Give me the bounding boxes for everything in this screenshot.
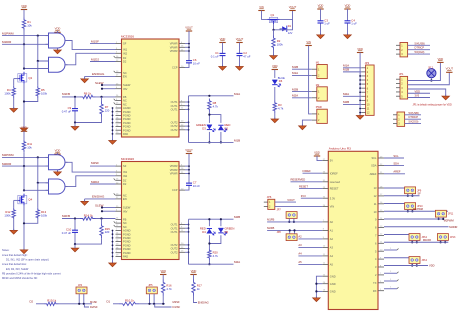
svg-text:OUT1: OUT1 xyxy=(171,223,178,227)
svg-text:NC: NC xyxy=(123,99,127,103)
svg-text:JP4: JP4 xyxy=(78,284,83,287)
junction OUT1 xyxy=(188,109,190,111)
junction R13/Q4 xyxy=(23,222,25,224)
junction inverter node 2 xyxy=(23,189,25,191)
wire R4 to gnd xyxy=(13,98,15,109)
svg-text:D1/SF: D1/SF xyxy=(173,305,181,309)
led D5 GREEN (M2) xyxy=(218,228,223,232)
svg-text:R10 1k: R10 1k xyxy=(125,299,134,303)
wire M2DIR xyxy=(2,165,49,167)
svg-text:VPWR: VPWR xyxy=(170,164,178,168)
svg-text:10k: 10k xyxy=(27,24,32,28)
ground (gate U3A) xyxy=(57,49,59,51)
svg-text:A4: A4 xyxy=(298,252,302,256)
svg-text:OUT2: OUT2 xyxy=(171,124,178,128)
svg-text:M1PWM: M1PWM xyxy=(2,31,14,35)
svg-text:A2: A2 xyxy=(330,237,334,241)
svg-text:PGND: PGND xyxy=(123,251,131,255)
svg-text:220: 220 xyxy=(105,109,110,113)
wire RESET xyxy=(299,188,322,190)
wire D1 to R10 xyxy=(113,303,119,305)
jumper JP8 legs xyxy=(289,230,291,233)
jumper JP12 (D7/D6) xyxy=(409,234,420,241)
junction OUT1 xyxy=(188,101,190,103)
wire M2DIR drop to gate2b in2 xyxy=(24,166,49,190)
wire U2 OUT1 bus xyxy=(188,219,190,264)
svg-text:FB provides 0.24% of the H-bri: FB provides 0.24% of the H-bridge high-s… xyxy=(2,271,61,275)
wire INV stub xyxy=(102,88,116,90)
wire D7 xyxy=(384,234,409,236)
svg-text:12V: 12V xyxy=(288,31,293,35)
svg-text:M1PWM: M1PWM xyxy=(413,207,423,211)
op-amp U1 MC33926 (driver 1) xyxy=(122,39,180,137)
capacitor C9 0.47uF xyxy=(74,97,76,109)
wire led bottoms M2 xyxy=(209,235,221,243)
wire R11 to M2DIR net xyxy=(23,152,25,166)
power flag VDD (C4) xyxy=(344,8,350,10)
svg-text:VPWR: VPWR xyxy=(170,168,178,172)
wire M1FB to A0 xyxy=(267,221,322,223)
junction OUT1b xyxy=(188,224,190,226)
wire D1 nc xyxy=(384,280,397,282)
resistor R14 1k xyxy=(80,217,96,220)
junction JP2 xyxy=(430,79,432,81)
wire Q1 gate node xyxy=(274,19,293,29)
junction U2 gnd pin xyxy=(112,237,114,239)
junction R20 top xyxy=(208,242,210,244)
ground (EN/DIAG M1) xyxy=(84,77,86,79)
wire D10 (M1PWM) xyxy=(384,210,448,212)
svg-text:D3: D3 xyxy=(202,127,206,131)
wire EN gnd stub 2 xyxy=(84,199,86,202)
wire SLEW stub 2 xyxy=(102,207,116,209)
svg-text:M1B: M1B xyxy=(343,68,349,72)
svg-text:A3: A3 xyxy=(330,246,334,250)
svg-text:0.47 uF: 0.47 uF xyxy=(62,231,72,235)
svg-text:PGND: PGND xyxy=(123,117,131,121)
svg-text:JP1 is default setting jumper: JP1 is default setting jumper for VDD xyxy=(413,104,452,107)
svg-text:PGND: PGND xyxy=(123,236,131,240)
junction 12-pin xyxy=(359,87,361,89)
wire U2 VPWR stub xyxy=(185,165,189,167)
wire M1B to conn xyxy=(292,68,312,70)
resistor R19 1k xyxy=(44,302,59,305)
svg-text:VDD: VDD xyxy=(345,3,351,7)
wire D6 to R3 xyxy=(274,87,276,101)
svg-text:M1FB: M1FB xyxy=(62,92,70,96)
connector power breakout xyxy=(400,43,408,57)
wire U2 VPWR stub xyxy=(185,173,189,175)
svg-text:A5: A5 xyxy=(330,263,334,267)
svg-text:DTR/CP: DTR/CP xyxy=(409,115,419,119)
ground (C4) xyxy=(347,33,349,35)
svg-text:R6 1k: R6 1k xyxy=(84,92,92,96)
wire R7 top xyxy=(101,97,103,102)
wire led bottoms xyxy=(208,132,210,143)
wire R12 to gnd xyxy=(13,220,15,231)
wire 5V(USB) (aux) xyxy=(405,114,421,116)
jumper JP13 legs xyxy=(440,240,442,242)
svg-text:Q2: Q2 xyxy=(28,76,32,80)
svg-text:VDD: VDD xyxy=(160,269,166,273)
svg-text:M1FB: M1FB xyxy=(267,218,274,222)
wire M2FB to A1 xyxy=(267,229,322,231)
svg-text:VIN: VIN xyxy=(330,205,334,209)
wire Q1 drain to VOUT xyxy=(280,11,293,20)
svg-text:NC: NC xyxy=(123,225,127,229)
junction M2DIR/R11 xyxy=(23,165,25,167)
wire EN/DIAG to EN pin 2 xyxy=(85,198,116,200)
junction INV end xyxy=(101,88,103,90)
op-amp U5 Arduino Uno R3 xyxy=(328,151,378,309)
junction M1DIR/R1 xyxy=(23,43,25,45)
svg-text:A5: A5 xyxy=(298,260,302,264)
junction R20 bot xyxy=(208,263,210,265)
svg-text:5V(2G0): 5V(2G0) xyxy=(409,120,419,124)
wire R17 to EN/DIAG xyxy=(194,296,198,303)
wire U2 VPWR stub xyxy=(185,169,189,171)
capacitor C2 47uF xyxy=(239,43,241,54)
junction FB/C9 xyxy=(74,96,76,98)
wire U2 OUT stub xyxy=(185,248,189,250)
junction R16 xyxy=(162,303,164,305)
wire M2A rail xyxy=(189,263,234,265)
junction led top2 M2 xyxy=(220,218,222,220)
wire JP1 pin3 to gnd xyxy=(408,89,446,96)
svg-text:M1A: M1A xyxy=(234,92,240,96)
svg-text:VPWR: VPWR xyxy=(170,42,178,46)
wire VDD to R11 xyxy=(23,131,25,139)
power flag VDD (Arduino 5V) xyxy=(314,155,320,157)
svg-text:SF: SF xyxy=(123,164,127,168)
junction U1 gnd pin xyxy=(112,129,114,131)
wire R6 to FB pin xyxy=(96,96,116,98)
svg-text:JP1: JP1 xyxy=(399,72,404,76)
wire 5V(2G0) xyxy=(408,53,430,55)
wire FB gnd stub xyxy=(74,123,76,127)
wire M1SF lower tap xyxy=(84,304,89,307)
svg-text:Q1: Q1 xyxy=(271,13,275,17)
svg-text:M2FB: M2FB xyxy=(267,226,274,230)
wire SDA xyxy=(384,165,404,167)
svg-text:5V(2G0): 5V(2G0) xyxy=(415,50,425,54)
wire DIR to Q2 xyxy=(23,69,25,71)
wire JP1 pin4 xyxy=(408,92,430,94)
svg-text:IN2: IN2 xyxy=(123,51,128,55)
svg-text:M2B: M2B xyxy=(343,100,349,104)
jumper JP12 legs xyxy=(411,240,413,242)
svg-text:PGND: PGND xyxy=(123,110,131,114)
ground (U1 PGND) xyxy=(112,139,114,141)
svg-text:VDD: VDD xyxy=(415,89,421,93)
junction OUT1b xyxy=(188,227,190,229)
capacitor C6 10nF xyxy=(188,59,190,61)
wire led left drop xyxy=(208,115,210,123)
jumper JP10 legs xyxy=(407,210,409,212)
junction gate2b drop xyxy=(37,182,39,184)
jumper JP4 legs xyxy=(78,294,80,304)
wire VIN riser xyxy=(309,46,312,114)
svg-text:4.7k: 4.7k xyxy=(278,106,284,110)
power flag VDD (12-pin) xyxy=(357,52,363,54)
junction 12-pin xyxy=(359,75,361,77)
diode D1 xyxy=(282,26,287,31)
svg-text:JP7: JP7 xyxy=(277,209,282,212)
junction gate2 drop xyxy=(37,60,39,62)
junction R8 top xyxy=(208,95,210,97)
junction VPWR xyxy=(188,50,190,52)
wire A4 xyxy=(298,255,322,257)
wire 12-pin bus stub xyxy=(360,108,362,110)
ground (R3) xyxy=(274,118,276,120)
wire U1 VPWR stub xyxy=(185,46,189,48)
wire U1 OUT stub xyxy=(185,129,189,131)
jumper JP5 legs xyxy=(149,294,151,304)
svg-text:VDD: VDD xyxy=(21,126,27,130)
wire VOUT from JP6 xyxy=(275,201,296,203)
svg-text:D2: D2 xyxy=(30,300,34,304)
junction VPWR2 xyxy=(188,165,190,167)
svg-text:D4: D4 xyxy=(202,230,206,234)
junction FB gnd xyxy=(74,121,76,123)
svg-text:INV: INV xyxy=(123,209,128,213)
power flag VDD (R1 pull-up) xyxy=(21,9,27,11)
ground (Q4 source) xyxy=(23,248,25,250)
svg-text:NC: NC xyxy=(123,221,127,225)
svg-text:AREF: AREF xyxy=(370,172,377,176)
svg-text:MC33926: MC33926 xyxy=(121,35,134,39)
svg-text:EN/DIAG: EN/DIAG xyxy=(92,72,105,76)
junction led bot xyxy=(208,141,210,143)
svg-text:IN1: IN1 xyxy=(123,170,128,174)
svg-text:M1: M1 xyxy=(316,62,320,65)
svg-text:M2: M2 xyxy=(316,84,320,87)
junction 12-pin xyxy=(359,108,361,110)
junction led mid xyxy=(208,114,210,116)
connector M2 output xyxy=(317,87,328,101)
svg-text:VDD: VDD xyxy=(429,264,435,268)
wire M2PWM drop to gate2 xyxy=(38,157,49,182)
wire Q4 gate link xyxy=(14,199,19,201)
wire D3 (VDD) xyxy=(384,265,428,267)
wire R2 bottom xyxy=(273,50,275,56)
wire R16 top xyxy=(162,275,164,280)
svg-text:PAD: PAD xyxy=(123,132,128,136)
svg-text:100k: 100k xyxy=(4,92,11,96)
junction OUT1b xyxy=(188,231,190,233)
svg-text:RESET: RESET xyxy=(330,187,339,191)
wire R13 bottom join xyxy=(24,220,38,224)
jumper JP5 xyxy=(146,287,157,294)
wire R15 top xyxy=(101,219,103,224)
transistor Q1 xyxy=(268,18,271,20)
wire JP1 pin1 to VDD xyxy=(408,62,441,80)
jumper JP9 (D13/D12) xyxy=(405,187,416,194)
junction 12-pin xyxy=(359,91,361,93)
ground (C1) xyxy=(222,65,224,67)
svg-text:R14 1k: R14 1k xyxy=(84,213,93,217)
wire D2 nc xyxy=(384,272,397,274)
wire M1B rail xyxy=(189,141,234,143)
ground (M2 FB) xyxy=(74,247,76,249)
svg-text:OUT2: OUT2 xyxy=(171,121,178,125)
junction U2 gnd pin xyxy=(112,233,114,235)
svg-text:PGND: PGND xyxy=(123,114,131,118)
transistor Q2 xyxy=(22,72,24,75)
svg-text:FB: FB xyxy=(123,218,127,222)
wire A3 xyxy=(298,246,322,248)
wire 5V(2G0) (aux) xyxy=(405,123,421,125)
svg-text:OUT2: OUT2 xyxy=(171,247,178,251)
power flag VDD (R11 pull-up) xyxy=(21,130,27,132)
junction U1 gnd pin xyxy=(112,115,114,117)
led D6 BLUE (power) xyxy=(272,80,277,84)
wire RESERVED xyxy=(291,181,323,183)
svg-text:1 uF: 1 uF xyxy=(351,22,357,26)
svg-text:0.47 uF: 0.47 uF xyxy=(62,110,72,114)
svg-text:10 nF: 10 nF xyxy=(193,184,200,188)
power flag VIN (Q1) xyxy=(258,10,264,12)
svg-text:M2PWM: M2PWM xyxy=(444,219,454,223)
svg-text:M1A: M1A xyxy=(292,71,298,75)
wire M1B 12-pin xyxy=(343,71,362,73)
jumper JP8 (A1) xyxy=(286,234,297,241)
wire U1 VPWR bus xyxy=(188,31,190,59)
svg-text:PGND: PGND xyxy=(123,128,131,132)
svg-text:A2: A2 xyxy=(298,235,302,239)
junction GND2 xyxy=(315,283,317,285)
power flag VIN (supply conn) xyxy=(305,45,311,47)
svg-text:D6: D6 xyxy=(279,79,283,83)
svg-text:INV: INV xyxy=(123,87,128,91)
wire U2 OUT stub xyxy=(185,224,189,226)
svg-text:M1B: M1B xyxy=(234,138,240,142)
svg-text:3.3V: 3.3V xyxy=(330,196,336,200)
wire D4 xyxy=(384,257,409,259)
wire diode link xyxy=(280,29,282,30)
svg-text:JP5: JP5 xyxy=(148,284,153,287)
wire M1DIR drop to gate2 in2 xyxy=(24,44,49,68)
wire SLEW stub xyxy=(102,84,116,86)
wire U1 OUT1 bus xyxy=(188,96,190,143)
svg-text:A3: A3 xyxy=(298,243,302,247)
junction FB2/R15 xyxy=(100,217,102,219)
svg-text:3V3: 3V3 xyxy=(301,194,306,198)
wire IOREF xyxy=(303,172,323,174)
wire 12-pin bus stub xyxy=(360,112,362,114)
wire M1A rail xyxy=(189,95,234,97)
svg-text:IOREF: IOREF xyxy=(330,171,338,175)
svg-text:SF: SF xyxy=(418,191,422,195)
svg-text:D1: D1 xyxy=(288,24,292,28)
wire D0 nc xyxy=(384,288,397,290)
resistor R3 4.7k xyxy=(273,101,276,114)
svg-text:SLEW: SLEW xyxy=(123,83,131,87)
wire D2 to R19 xyxy=(36,303,44,305)
connector aux breakout xyxy=(397,112,405,126)
svg-text:D2: D2 xyxy=(225,127,229,131)
connector 12-pin breakout xyxy=(366,65,375,115)
power flag VDD (gate U4A) xyxy=(54,153,60,155)
jumper JP10 (D11/D10) xyxy=(405,203,416,210)
svg-text:SLEW: SLEW xyxy=(123,206,131,210)
wire GND bus (Arduino) xyxy=(316,276,322,298)
svg-text:3V3: 3V3 xyxy=(415,94,420,98)
wire M2A to conn xyxy=(292,97,312,99)
svg-text:OUT2: OUT2 xyxy=(171,243,178,247)
junction inverter node xyxy=(23,67,25,69)
svg-text:100k: 100k xyxy=(4,213,11,217)
and-gate U4B xyxy=(49,179,66,194)
junction VPWR xyxy=(188,43,190,45)
svg-text:MC33926: MC33926 xyxy=(121,157,134,161)
svg-text:JP13: JP13 xyxy=(450,236,456,239)
connector M1 output xyxy=(317,65,328,79)
resistor R16 4.7k xyxy=(162,280,165,296)
wire VDD to R1 xyxy=(23,10,25,18)
junction OUT2 xyxy=(188,129,190,131)
svg-text:GND: GND xyxy=(330,282,336,286)
svg-text:M2A: M2A xyxy=(234,260,240,264)
wire Q2 gate link xyxy=(14,78,19,80)
wire R13 top from PWM drop xyxy=(37,183,39,208)
svg-text:EN: EN xyxy=(123,197,127,201)
svg-text:VPWR: VPWR xyxy=(170,45,178,49)
wire FB2 gnd stub xyxy=(74,244,76,248)
svg-text:JP14: JP14 xyxy=(422,259,428,262)
wire JP1 pin2 to VOUT xyxy=(408,72,450,84)
power flag VDD (R16) xyxy=(160,274,166,276)
capacitor C4 1uF xyxy=(347,9,349,21)
wire 12-pin bus xyxy=(359,53,361,116)
resistor R6 1k xyxy=(80,95,96,98)
junction VPWR2 xyxy=(188,169,190,171)
capacitor C10 0.47uF xyxy=(74,219,76,231)
svg-text:D2: D2 xyxy=(123,60,127,64)
svg-text:220: 220 xyxy=(105,230,110,234)
wire AREF xyxy=(384,173,405,175)
wire R19 to JP4 xyxy=(59,303,93,305)
svg-text:5V(USB): 5V(USB) xyxy=(415,41,425,45)
svg-text:SCL: SCL xyxy=(371,156,377,160)
power flag VDD (C1) xyxy=(219,42,225,44)
svg-text:EN/DIAG: EN/DIAG xyxy=(92,195,105,199)
svg-text:M2DIR: M2DIR xyxy=(2,162,12,166)
wire M1A 12-pin xyxy=(343,67,362,69)
svg-text:AGND: AGND xyxy=(123,229,131,233)
junction led bot2 xyxy=(220,141,222,143)
wire R8 to led rail xyxy=(209,112,221,123)
svg-text:4.7k: 4.7k xyxy=(213,105,219,109)
wire gate2 out to IN2 xyxy=(65,53,116,65)
wire GND3 (Arduino) xyxy=(316,290,322,292)
svg-text:47 uF: 47 uF xyxy=(243,54,250,58)
junction led top M2 xyxy=(208,218,210,220)
wire DTR/CP xyxy=(408,49,430,51)
svg-text:M2D2: M2D2 xyxy=(91,180,99,184)
svg-text:VDD: VDD xyxy=(314,150,320,154)
wire R1 to M1DIR net xyxy=(23,31,25,45)
svg-text:NC: NC xyxy=(123,102,127,106)
svg-text:VPWR: VPWR xyxy=(170,172,178,176)
wire gate1 out to IN1 xyxy=(65,41,116,50)
wire VIN to Q1 xyxy=(262,11,268,20)
svg-text:VOUT: VOUT xyxy=(236,37,244,41)
wire U2 ground bus xyxy=(112,231,114,264)
wire M2SF to SF pin xyxy=(90,165,116,167)
svg-text:4.7k: 4.7k xyxy=(213,254,219,258)
wire U2 OUT stub xyxy=(185,231,189,233)
